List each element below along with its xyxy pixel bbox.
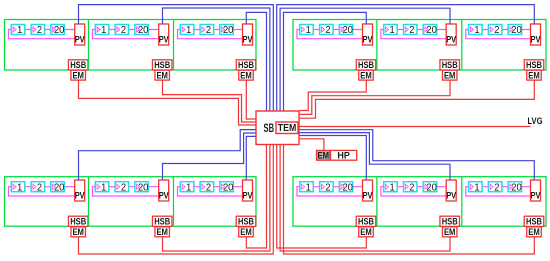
device box 2 (TL3) <box>200 25 214 37</box>
wire EM BR2 to SB (red) <box>280 145 450 252</box>
svg-text:1: 1 <box>390 25 395 36</box>
svg-text:2: 2 <box>325 25 330 36</box>
wire EM TL3 to SB (red) <box>246 80 256 119</box>
EM box (BL3) <box>239 227 254 238</box>
svg-text:PV: PV <box>531 191 542 202</box>
svg-text:HSB: HSB <box>358 217 374 228</box>
svg-text:20: 20 <box>342 182 353 193</box>
device box 2 (TL2) <box>115 25 129 37</box>
HSB box (BL3) <box>236 216 256 227</box>
svg-text:20: 20 <box>54 182 65 193</box>
device box 2 (TR3) <box>488 25 502 37</box>
svg-text:1: 1 <box>101 25 106 36</box>
block divider TR3 (green) <box>461 20 463 71</box>
device box 20 (TR3) <box>508 25 522 37</box>
device box 1 (BL3) <box>180 182 194 194</box>
svg-text:20: 20 <box>54 25 65 36</box>
svg-text:20: 20 <box>426 25 437 36</box>
svg-text:2: 2 <box>121 25 126 36</box>
svg-text:PV: PV <box>159 191 170 202</box>
svg-text:PV: PV <box>75 35 86 46</box>
svg-text:2: 2 <box>409 25 414 36</box>
group enclosure TR (green) <box>293 20 546 71</box>
svg-text:EM: EM <box>240 70 252 81</box>
block divider BL2 (green) <box>88 177 90 227</box>
svg-text:SB: SB <box>264 123 275 135</box>
group enclosure BL (green) <box>5 177 257 227</box>
svg-text:20: 20 <box>511 25 522 36</box>
block divider TR2 (green) <box>376 20 378 71</box>
device box 2 (BR3) <box>488 182 502 194</box>
device box 2 (TR1) <box>320 25 334 37</box>
svg-text:2: 2 <box>325 182 330 193</box>
wire PV TL3 to SB (blue) <box>246 12 266 111</box>
PV box (TR1) <box>363 24 374 46</box>
block divider BL3 (green) <box>173 177 175 227</box>
magenta bus wire (TR2) <box>381 30 446 39</box>
svg-text:2: 2 <box>121 182 126 193</box>
svg-text:2: 2 <box>206 25 211 36</box>
wire EM BL1 to SB (red) <box>79 145 274 255</box>
svg-text:PV: PV <box>75 191 86 202</box>
device box 2 (TL1) <box>31 25 44 37</box>
svg-text:EM: EM <box>72 227 84 238</box>
wire PV TR1 to SB (blue) <box>284 12 367 111</box>
magenta bus wire (BL3) <box>178 187 243 196</box>
device box 2 (BR1) <box>320 182 334 194</box>
svg-text:EM: EM <box>528 227 540 238</box>
device box 20 (BL1) <box>51 182 65 194</box>
wire EM TR3 to SB (red) <box>299 80 534 118</box>
wire PV BL1 to SB (blue) <box>79 130 257 180</box>
HSB box (BR1) <box>356 216 376 227</box>
magenta bus wire (BL2) <box>93 187 159 196</box>
magenta bus wire (BR3) <box>466 187 531 196</box>
device box 20 (BL2) <box>135 182 149 194</box>
wire PV BL3 to SB (blue) <box>246 136 256 180</box>
group enclosure TL (green) <box>5 20 257 71</box>
device box 1 (TR1) <box>300 25 314 37</box>
PV box (TL1) <box>75 24 86 46</box>
PV box (TR3) <box>531 24 542 46</box>
svg-text:1: 1 <box>474 25 479 36</box>
wire EM BL3 to SB (red) <box>246 145 266 249</box>
device box 20 (TL1) <box>51 25 65 37</box>
block divider TL2 (green) <box>88 20 90 71</box>
magenta bus wire (TR3) <box>466 30 531 39</box>
magenta bus wire (BL1) <box>9 187 75 196</box>
wire EM TR2 to SB (red) <box>299 80 450 114</box>
PV box (TL2) <box>159 24 170 46</box>
svg-text:20: 20 <box>223 25 234 36</box>
HSB box (TL3) <box>236 60 256 71</box>
EM box (BL2) <box>155 227 170 238</box>
device box 1 (TR2) <box>384 25 398 37</box>
EM box (center, highlighted) <box>317 150 331 161</box>
wire PV BR1 to SB (blue) <box>299 136 366 181</box>
svg-text:20: 20 <box>138 182 149 193</box>
svg-text:HSB: HSB <box>442 217 458 228</box>
svg-text:EM: EM <box>240 227 252 238</box>
svg-text:2: 2 <box>409 182 414 193</box>
HSB box (BL1) <box>68 216 88 227</box>
wire EM BL2 to SB (red) <box>163 145 270 252</box>
svg-text:EM: EM <box>444 70 456 81</box>
svg-text:1: 1 <box>390 182 395 193</box>
svg-text:2: 2 <box>494 182 499 193</box>
PV box (BL2) <box>159 180 170 202</box>
svg-text:1: 1 <box>17 25 22 36</box>
svg-text:20: 20 <box>223 182 234 193</box>
LVG feeder wire (red) <box>299 126 531 128</box>
EM box (BL1) <box>71 227 86 238</box>
svg-text:EM: EM <box>318 151 330 162</box>
EM box (TL1) <box>71 70 86 81</box>
svg-text:2: 2 <box>206 182 211 193</box>
device box 1 (TL1) <box>11 25 24 37</box>
svg-text:EM: EM <box>360 227 372 238</box>
wire PV TR3 to SB (blue) <box>277 5 535 111</box>
PV box (TL3) <box>243 24 254 46</box>
device box 2 (BL1) <box>31 182 44 194</box>
HSB box (TR3) <box>524 60 544 71</box>
device box 20 (BR1) <box>339 182 353 194</box>
TEM box (inside SB) <box>276 122 298 134</box>
svg-text:PV: PV <box>243 191 254 202</box>
svg-text:PV: PV <box>446 191 457 202</box>
block divider TL3 (green) <box>173 20 175 71</box>
wire SB to EM/HP (red) <box>299 139 324 151</box>
svg-text:EM: EM <box>72 70 84 81</box>
controller box SB <box>256 111 299 145</box>
svg-text:20: 20 <box>511 182 522 193</box>
svg-text:TEM: TEM <box>278 122 297 134</box>
svg-text:EM: EM <box>360 70 372 81</box>
svg-text:HP: HP <box>337 151 350 162</box>
svg-text:HSB: HSB <box>526 217 542 228</box>
svg-text:PV: PV <box>446 35 457 46</box>
PV box (BL3) <box>243 180 254 202</box>
device box 20 (TL2) <box>135 25 149 37</box>
svg-text:1: 1 <box>474 182 479 193</box>
block divider BR3 (green) <box>461 177 463 227</box>
EM box (TR3) <box>527 70 542 81</box>
magenta bus wire (TL2) <box>93 30 159 39</box>
svg-text:20: 20 <box>342 25 353 36</box>
svg-text:PV: PV <box>243 35 254 46</box>
magenta bus wire (TL3) <box>178 30 243 39</box>
HSB box (BL2) <box>152 216 172 227</box>
svg-text:2: 2 <box>37 182 42 193</box>
svg-text:HSB: HSB <box>238 217 254 228</box>
svg-text:PV: PV <box>531 35 542 46</box>
wire EM BR1 to SB (red) <box>277 145 367 249</box>
svg-text:1: 1 <box>306 25 311 36</box>
svg-text:20: 20 <box>138 25 149 36</box>
device box 2 (BL2) <box>115 182 129 194</box>
device box 1 (TL3) <box>180 25 194 37</box>
magenta bus wire (TL1) <box>9 30 75 39</box>
device box 1 (BL2) <box>95 182 109 194</box>
svg-text:2: 2 <box>37 25 42 36</box>
device box 20 (TR1) <box>339 25 353 37</box>
magenta bus wire (TR1) <box>297 30 363 39</box>
EM box (BR2) <box>442 227 457 238</box>
wire EM TL1 to SB (red) <box>79 80 257 125</box>
EM box (TR1) <box>359 70 374 81</box>
wire EM BR3 to SB (red) <box>284 145 535 255</box>
svg-text:HSB: HSB <box>70 217 86 228</box>
device box 2 (TR2) <box>404 25 418 37</box>
wire PV TL1 to SB (blue) <box>79 5 274 111</box>
HSB box (TL1) <box>68 60 88 71</box>
PV box (BR3) <box>531 180 542 202</box>
PV box (BR1) <box>363 180 374 202</box>
HSB box (TR2) <box>440 60 460 71</box>
HSB box (TR1) <box>356 60 376 71</box>
svg-text:PV: PV <box>159 35 170 46</box>
svg-text:20: 20 <box>426 182 437 193</box>
device box 1 (TL2) <box>95 25 109 37</box>
device box 1 (TR3) <box>469 25 483 37</box>
svg-text:EM: EM <box>528 70 540 81</box>
PV box (TR2) <box>446 24 457 46</box>
svg-text:EM: EM <box>156 227 168 238</box>
magenta bus wire (BR1) <box>297 187 363 196</box>
wire PV BR2 to SB (blue) <box>299 133 450 180</box>
device box 1 (BR1) <box>300 182 314 194</box>
device box 1 (BL1) <box>11 182 24 194</box>
wire PV TL2 to SB (blue) <box>163 8 270 111</box>
svg-text:1: 1 <box>101 182 106 193</box>
EM box (TL3) <box>239 70 254 81</box>
device box 2 (BL3) <box>200 182 214 194</box>
EM box (TL2) <box>155 70 170 81</box>
device box 1 (BR3) <box>469 182 483 194</box>
wire EM TL2 to SB (red) <box>163 80 257 122</box>
EM box (BR3) <box>527 227 542 238</box>
svg-text:EM: EM <box>156 70 168 81</box>
PV box (BL1) <box>75 180 86 202</box>
device box 20 (TR2) <box>423 25 437 37</box>
PV box (BR2) <box>446 180 457 202</box>
HSB box (BR2) <box>440 216 460 227</box>
wire PV BR3 to SB (blue) <box>299 130 534 180</box>
EM box (TR2) <box>442 70 457 81</box>
HP box <box>331 150 357 161</box>
svg-text:PV: PV <box>363 191 374 202</box>
device box 20 (BL3) <box>220 182 234 194</box>
device box 20 (BR3) <box>508 182 522 194</box>
HSB box (BR3) <box>524 216 544 227</box>
device box 20 (BR2) <box>423 182 437 194</box>
svg-text:1: 1 <box>186 182 191 193</box>
wire EM TR1 to SB (red) <box>299 80 366 110</box>
group enclosure BR (green) <box>293 177 546 227</box>
svg-text:HSB: HSB <box>154 217 170 228</box>
device box 1 (BR2) <box>384 182 398 194</box>
svg-text:2: 2 <box>494 25 499 36</box>
svg-text:1: 1 <box>17 182 22 193</box>
wire PV TR2 to SB (blue) <box>280 8 450 111</box>
HSB box (TL2) <box>152 60 172 71</box>
EM box (BR1) <box>359 227 374 238</box>
svg-text:1: 1 <box>186 25 191 36</box>
svg-text:1: 1 <box>306 182 311 193</box>
wire PV BL2 to SB (blue) <box>163 133 257 180</box>
device box 2 (BR2) <box>404 182 418 194</box>
svg-text:EM: EM <box>444 227 456 238</box>
magenta bus wire (BR2) <box>381 187 446 196</box>
svg-text:LVG: LVG <box>528 116 543 127</box>
svg-text:PV: PV <box>363 35 374 46</box>
block divider BR2 (green) <box>376 177 378 227</box>
device box 20 (TL3) <box>220 25 234 37</box>
